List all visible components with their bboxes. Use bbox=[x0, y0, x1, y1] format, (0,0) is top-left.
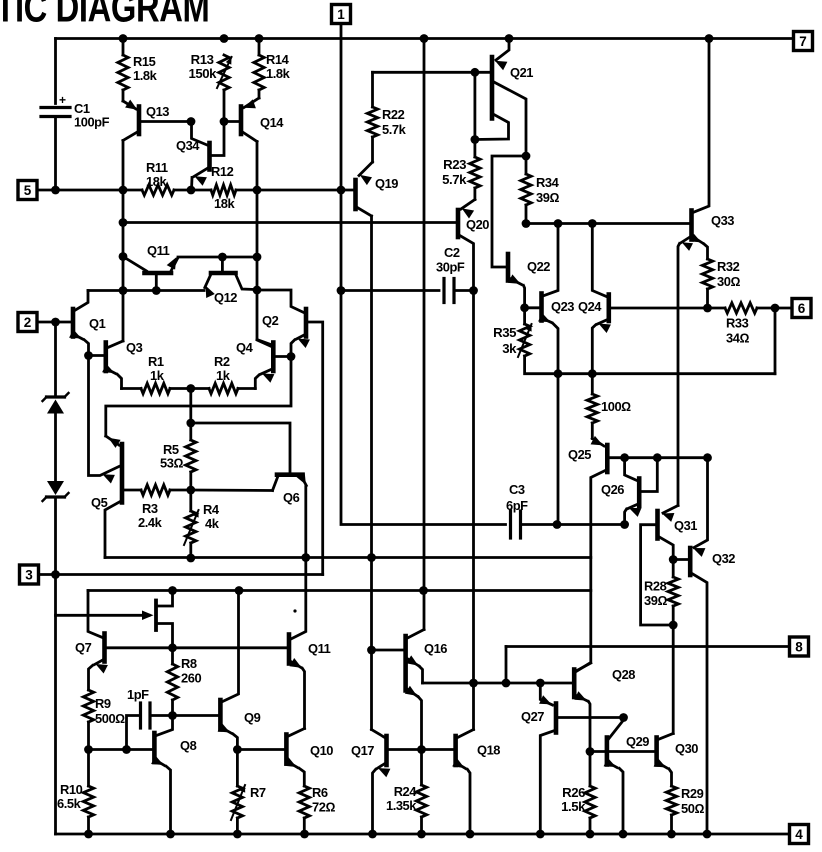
node Q8 base/R9R10 bbox=[84, 745, 93, 754]
svg-text:Q18: Q18 bbox=[477, 743, 500, 758]
resistor R24 bbox=[416, 750, 426, 835]
svg-text:Q1: Q1 bbox=[89, 316, 106, 331]
svg-text:R22: R22 bbox=[382, 107, 405, 122]
svg-text:Q22: Q22 bbox=[527, 259, 550, 274]
node Q9 emitter/R7/Q10 base bbox=[233, 745, 242, 754]
label Q10 bbox=[310, 743, 333, 758]
svg-text:R4: R4 bbox=[203, 502, 220, 517]
node Q26 emitter bbox=[620, 520, 629, 529]
svg-text:Q33: Q33 bbox=[711, 213, 734, 228]
svg-text:R12: R12 bbox=[211, 164, 234, 179]
svg-text:4k: 4k bbox=[205, 516, 220, 531]
node Q21 collector/R34 bbox=[522, 152, 531, 161]
resistor R9 bbox=[83, 690, 93, 750]
svg-text:R35: R35 bbox=[493, 325, 516, 340]
wire net-B R5 to Q6 collector bbox=[191, 423, 290, 473]
label R2 bbox=[214, 354, 231, 383]
transistor Q12 bbox=[205, 257, 255, 298]
svg-text:100pF: 100pF bbox=[74, 115, 110, 130]
svg-text:8: 8 bbox=[795, 639, 803, 654]
node Q20 collector / C2 bbox=[469, 286, 478, 295]
svg-text:Q19: Q19 bbox=[375, 176, 398, 191]
svg-text:Q28: Q28 bbox=[612, 667, 635, 682]
resistor R33 bbox=[708, 303, 792, 313]
transistor Q8 bbox=[89, 733, 171, 834]
node emitter row 100ohm bbox=[588, 369, 597, 378]
node R3/R4/R5 bbox=[186, 486, 195, 495]
node Q21 base/R23 column bbox=[471, 68, 480, 77]
svg-text:72Ω: 72Ω bbox=[312, 800, 335, 815]
label Q34 bbox=[176, 138, 200, 153]
svg-text:Q3: Q3 bbox=[126, 340, 143, 355]
svg-text:Q12: Q12 bbox=[214, 290, 237, 305]
resistor R13 (adjustable) bbox=[217, 55, 232, 122]
svg-text:18k: 18k bbox=[146, 174, 167, 189]
node y557/Q19 column bbox=[367, 553, 376, 562]
node R4 bottom bbox=[186, 554, 195, 563]
wire Q7 collector bbox=[88, 591, 103, 638]
svg-text:Q20: Q20 bbox=[466, 217, 489, 232]
resistor R2 bbox=[191, 383, 256, 393]
resistor R4 (adjustable) bbox=[184, 490, 199, 558]
label Q6 bbox=[283, 490, 300, 505]
node Q25 base / Q32 emitter column bbox=[703, 453, 712, 462]
label R9 bbox=[95, 696, 125, 726]
svg-text:Q25: Q25 bbox=[568, 447, 591, 462]
transistor Q33 (dual emitter) bbox=[678, 39, 709, 506]
svg-text:1k: 1k bbox=[150, 368, 165, 383]
transistor Q1 bbox=[69, 291, 88, 356]
svg-text:4: 4 bbox=[795, 827, 803, 842]
svg-text:Q5: Q5 bbox=[91, 495, 108, 510]
node Q12 base bbox=[218, 253, 227, 262]
wire pin8 row bbox=[506, 645, 789, 648]
svg-text:1: 1 bbox=[337, 7, 345, 22]
svg-text:R1: R1 bbox=[148, 354, 164, 369]
svg-text:R34: R34 bbox=[536, 175, 560, 190]
label Q33 bbox=[711, 213, 734, 228]
label Q24 bbox=[578, 299, 602, 314]
label R14 bbox=[266, 52, 291, 81]
wire pin5 row R11 R12 bbox=[37, 189, 354, 192]
svg-text:30pF: 30pF bbox=[436, 260, 465, 275]
wire Q13 collector column bbox=[122, 141, 125, 191]
zener diode D2 bbox=[43, 481, 69, 501]
svg-text:Q24: Q24 bbox=[578, 299, 602, 314]
transistor Q26 bbox=[625, 458, 658, 525]
label R6 bbox=[312, 785, 335, 815]
label R35 bbox=[493, 325, 517, 356]
junction dots on V+ rail bbox=[119, 34, 714, 43]
svg-text:3k: 3k bbox=[502, 341, 517, 356]
svg-text:R7: R7 bbox=[250, 785, 266, 800]
label Q17 bbox=[351, 743, 374, 758]
node y647/R8 jfet source bbox=[168, 643, 177, 652]
label Q18 bbox=[477, 743, 500, 758]
capacitor C1 bbox=[41, 93, 70, 117]
node R1/R2 tap bbox=[186, 384, 195, 393]
node R33/pin6 feedback bbox=[771, 304, 780, 313]
wire pin2 to Q1 base bbox=[37, 321, 71, 324]
label R7 bbox=[250, 785, 266, 800]
svg-text:5: 5 bbox=[24, 183, 32, 198]
resistor R8 bbox=[167, 648, 177, 716]
terminal 6 bbox=[792, 299, 811, 318]
svg-text:53Ω: 53Ω bbox=[160, 456, 183, 471]
svg-text:Q10: Q10 bbox=[310, 743, 333, 758]
terminal 5 bbox=[18, 181, 37, 200]
wire Q28 base row bbox=[423, 682, 573, 685]
svg-text:R24: R24 bbox=[394, 784, 418, 799]
transistor Q6 bbox=[273, 472, 307, 639]
jfet Q15 bbox=[56, 590, 173, 648]
label Q11 upper bbox=[147, 243, 170, 258]
svg-text:100Ω: 100Ω bbox=[601, 399, 631, 414]
node R5 top bbox=[186, 419, 195, 428]
svg-text:Q27: Q27 bbox=[521, 709, 544, 724]
transistor Q21 (dual collector) bbox=[475, 39, 526, 157]
node pin2/zener column bbox=[51, 318, 60, 327]
label Q9 bbox=[244, 710, 261, 725]
node y590/Q9 collector bbox=[235, 586, 244, 595]
wire V- bottom rail bbox=[56, 833, 791, 836]
label R28 bbox=[644, 579, 667, 609]
transistor Q23 bbox=[538, 224, 558, 374]
label Q7 bbox=[75, 640, 92, 655]
label Q13 bbox=[146, 104, 169, 119]
transistor Q11 (upper) bbox=[123, 257, 257, 291]
resistor R5 bbox=[186, 423, 196, 490]
label R34 bbox=[536, 175, 560, 205]
node y683/Q27 emitter bbox=[536, 679, 545, 688]
wire V+ top rail bbox=[56, 37, 794, 40]
resistor R29 bbox=[666, 786, 676, 834]
wire C2 right bbox=[454, 289, 474, 292]
wire Q33 base row bbox=[526, 222, 690, 225]
svg-text:260: 260 bbox=[181, 671, 201, 686]
node R28 bottom bbox=[669, 621, 678, 630]
node Q25 base / Q26 collector bbox=[620, 453, 629, 462]
svg-text:50Ω: 50Ω bbox=[681, 801, 704, 816]
resistor 100ohm bbox=[587, 374, 597, 439]
transistor Q31 bbox=[641, 506, 678, 626]
svg-text:5.7k: 5.7k bbox=[442, 172, 467, 187]
svg-text:1.8k: 1.8k bbox=[133, 68, 158, 83]
label Q31 bbox=[674, 518, 697, 533]
wire zener column top bbox=[54, 322, 57, 397]
node Q2 emitter / Q4 base bbox=[287, 352, 296, 361]
wire R35 column to C3 row bbox=[557, 374, 560, 525]
svg-text:6pF: 6pF bbox=[506, 498, 528, 513]
svg-text:5.7k: 5.7k bbox=[382, 122, 407, 137]
svg-text:Q16: Q16 bbox=[424, 641, 447, 656]
label 100ohm bbox=[601, 399, 631, 414]
label R15 bbox=[133, 54, 158, 83]
svg-text:R23: R23 bbox=[443, 157, 466, 172]
transistor Q18 bbox=[424, 730, 474, 835]
label Q21 bbox=[510, 65, 533, 80]
junction dots bottom rail bbox=[84, 830, 711, 839]
label Q4 bbox=[236, 340, 254, 355]
resistor R12 bbox=[211, 185, 236, 195]
label R13 bbox=[188, 52, 217, 81]
label Q28 bbox=[612, 667, 635, 682]
svg-text:R10: R10 bbox=[60, 782, 83, 797]
node Q16 base / Q19 column bbox=[367, 646, 376, 655]
transistor Q3 bbox=[89, 343, 122, 389]
resistor R34 bbox=[521, 156, 531, 224]
resistor R1 bbox=[122, 383, 191, 393]
svg-text:Q29: Q29 bbox=[626, 734, 649, 749]
node Q6 emitter column / y557 bbox=[301, 553, 310, 562]
node y590/jfet drain bbox=[168, 586, 177, 595]
resistor R6 bbox=[299, 786, 309, 834]
svg-text:R15: R15 bbox=[133, 54, 156, 69]
label R26 bbox=[561, 785, 586, 814]
svg-text:Q34: Q34 bbox=[176, 138, 200, 153]
transistor Q25 bbox=[576, 436, 707, 672]
svg-text:3: 3 bbox=[25, 567, 33, 582]
svg-text:2.4k: 2.4k bbox=[138, 515, 163, 530]
wire Q29 collector from Q27 base node bbox=[609, 718, 624, 739]
resistor R28 bbox=[668, 560, 678, 626]
transistor Q17 bbox=[372, 730, 391, 835]
svg-text:18k: 18k bbox=[214, 196, 235, 211]
svg-text:Q14: Q14 bbox=[260, 115, 284, 130]
node y683/Q18 collector bbox=[469, 679, 478, 688]
node Q20 base wire left end bbox=[119, 218, 128, 227]
label R1 bbox=[148, 354, 165, 383]
wire Q16 collector column bbox=[423, 39, 426, 630]
junction dots Q13 base wire bbox=[187, 117, 229, 126]
label Q2 bbox=[262, 313, 279, 328]
terminal 1 bbox=[332, 5, 351, 24]
label Q30 bbox=[675, 741, 698, 756]
transistor Q14 bbox=[224, 98, 259, 142]
label Q5 bbox=[91, 495, 108, 510]
label Q12 bbox=[214, 290, 237, 305]
wire pin1 column to C3 bbox=[341, 24, 506, 525]
label Q14 bbox=[260, 115, 284, 130]
wire Q17 base row bbox=[389, 748, 421, 751]
zener diode D1 bbox=[43, 393, 69, 414]
transistor Q20 bbox=[458, 200, 475, 291]
node Q31 collector / Q32 base / R28 bbox=[669, 555, 678, 564]
label R24 bbox=[386, 784, 417, 813]
wire zener bottom bbox=[54, 497, 57, 575]
node Q1 emitter / Q3 base bbox=[84, 351, 93, 360]
svg-text:R8: R8 bbox=[181, 656, 197, 671]
svg-text:R28: R28 bbox=[644, 579, 667, 594]
node y683/pin8 bbox=[502, 679, 511, 688]
wire y557 row bbox=[105, 556, 591, 559]
label Q1 bbox=[89, 316, 106, 331]
label R4 bbox=[203, 502, 220, 531]
node pin3/zener column bbox=[51, 570, 60, 579]
svg-text:2: 2 bbox=[24, 315, 32, 330]
svg-text:R13: R13 bbox=[191, 52, 214, 67]
svg-text:6: 6 bbox=[798, 301, 806, 316]
transistor Q10 bbox=[239, 729, 304, 787]
node x257/y290 bbox=[253, 286, 262, 295]
svg-text:R29: R29 bbox=[681, 786, 704, 801]
resistor R32 bbox=[702, 259, 712, 308]
wire C3 right bbox=[521, 523, 625, 526]
wire Q14 collector column bbox=[257, 142, 272, 347]
wire zener mid bbox=[54, 414, 57, 482]
junction dots Q33 base row bbox=[522, 219, 597, 228]
wire net-A Q2em to Q5 bbox=[106, 357, 291, 437]
transistor Q19 bbox=[356, 162, 373, 216]
node Q21 collector2 tie bbox=[471, 135, 480, 144]
svg-text:1.35k: 1.35k bbox=[386, 798, 417, 813]
svg-text:Q30: Q30 bbox=[675, 741, 698, 756]
svg-text:1.8k: 1.8k bbox=[266, 66, 291, 81]
wire R1R2 tap down bbox=[189, 389, 192, 424]
svg-text:30Ω: 30Ω bbox=[717, 274, 740, 289]
resistor R23 bbox=[470, 157, 480, 200]
transistor Q2 bbox=[291, 309, 323, 575]
wire C1 top bbox=[54, 39, 57, 104]
label Q19 bbox=[375, 176, 398, 191]
transistor Q34 bbox=[192, 122, 225, 191]
label 1pF bbox=[127, 687, 149, 702]
junction dots pin5 row bbox=[51, 186, 261, 195]
node Q17 base/R24/Q16em2 bbox=[417, 745, 426, 754]
svg-text:Q4: Q4 bbox=[236, 340, 254, 355]
node x123/y256 bbox=[119, 252, 128, 261]
svg-text:Q17: Q17 bbox=[351, 743, 374, 758]
capacitor C2 bbox=[444, 279, 454, 303]
wire Q6 base row bbox=[191, 489, 273, 492]
label Q27 bbox=[521, 709, 544, 724]
svg-text:Q26: Q26 bbox=[601, 482, 624, 497]
transistor Q28 bbox=[574, 663, 591, 752]
svg-text:34Ω: 34Ω bbox=[726, 331, 749, 346]
terminal 2 bbox=[18, 313, 37, 332]
resistor R14 bbox=[254, 39, 264, 99]
terminal 3 bbox=[20, 565, 39, 584]
label R8 bbox=[181, 656, 201, 686]
node C3/R35-Q23 column bbox=[553, 520, 562, 529]
node Q28 emitter / Q29 base / R26 bbox=[586, 747, 595, 756]
label R10 bbox=[57, 782, 83, 811]
terminal 4 bbox=[790, 825, 809, 844]
svg-text:R14: R14 bbox=[266, 52, 290, 67]
svg-text:R26: R26 bbox=[562, 785, 585, 800]
resistor R22 bbox=[367, 72, 377, 162]
node y590/Q16 collector column bbox=[419, 586, 428, 595]
node Q8 base/1pF bbox=[122, 745, 131, 754]
node pin1/R12 wire bbox=[337, 186, 346, 195]
speck bbox=[293, 609, 296, 612]
label Q20 bbox=[466, 217, 489, 232]
wire Q11 collector row bbox=[88, 289, 204, 292]
svg-text:500Ω: 500Ω bbox=[95, 711, 125, 726]
svg-text:6.5k: 6.5k bbox=[57, 796, 82, 811]
svg-text:R3: R3 bbox=[142, 501, 158, 516]
label R33 bbox=[726, 316, 749, 346]
wire pin3 column down to rail bbox=[54, 575, 57, 835]
resistor R35 (adjustable) bbox=[518, 308, 556, 374]
svg-text:39Ω: 39Ω bbox=[536, 190, 559, 205]
node pin1/C2 wire bbox=[337, 286, 346, 295]
svg-text:1k: 1k bbox=[216, 368, 231, 383]
wire R23 column bbox=[473, 72, 476, 157]
svg-text:Q7: Q7 bbox=[75, 640, 92, 655]
transistor Q4 bbox=[255, 340, 291, 389]
svg-text:Q9: Q9 bbox=[244, 710, 261, 725]
label Q29 bbox=[626, 734, 649, 749]
svg-text:R33: R33 bbox=[726, 316, 749, 331]
transistor Q32 bbox=[675, 458, 707, 834]
svg-text:7: 7 bbox=[799, 34, 807, 49]
wire x123 column bbox=[122, 190, 125, 341]
label R23 bbox=[442, 157, 467, 187]
label Q32 bbox=[712, 551, 735, 566]
title text (clipped) bbox=[0, 0, 209, 30]
svg-text:Q21: Q21 bbox=[510, 65, 533, 80]
wire pin6 down to emitter row bbox=[774, 308, 777, 374]
label Q25 bbox=[568, 447, 591, 462]
wire Q23 base bbox=[525, 306, 540, 309]
svg-text:C2: C2 bbox=[444, 245, 460, 260]
wire Q20 base row bbox=[123, 221, 456, 224]
label R5 bbox=[160, 442, 183, 471]
terminal 7 bbox=[794, 32, 813, 51]
label R12 bbox=[211, 164, 235, 211]
wire R8 column to Q8 bbox=[156, 716, 172, 736]
transistor Q16 (dual emitter) bbox=[372, 630, 425, 750]
node R32/R33 junction bbox=[703, 304, 712, 313]
label R11 bbox=[146, 160, 168, 189]
wire y590 row bbox=[88, 589, 591, 592]
wire Q2 collector path bbox=[257, 290, 304, 313]
label R22 bbox=[382, 107, 407, 137]
svg-text:R2: R2 bbox=[214, 354, 230, 369]
transistor Q30 bbox=[654, 734, 674, 787]
label Q23 bbox=[551, 299, 574, 314]
svg-text:R9: R9 bbox=[95, 696, 111, 711]
transistor Q5 (dual emitter) bbox=[89, 356, 123, 558]
label C2 bbox=[436, 245, 465, 275]
wire pin8 drop bbox=[505, 647, 508, 684]
label Q22 bbox=[527, 259, 550, 274]
wire y647 row bbox=[107, 646, 288, 649]
svg-text:1pF: 1pF bbox=[127, 687, 149, 702]
terminal 8 bbox=[790, 637, 809, 656]
svg-text:R6: R6 bbox=[312, 785, 328, 800]
label R3 bbox=[138, 501, 163, 530]
svg-text:Q2: Q2 bbox=[262, 313, 279, 328]
capacitor 1pF bbox=[127, 703, 173, 750]
wire C1 bottom bbox=[54, 117, 57, 191]
svg-text:Q32: Q32 bbox=[712, 551, 735, 566]
node Q22 emitter / Q23 base / R35 bbox=[520, 303, 529, 312]
svg-text:R32: R32 bbox=[717, 259, 740, 274]
wire R28/Q30 collector column bbox=[672, 625, 675, 734]
svg-text:Q8: Q8 bbox=[180, 738, 197, 753]
svg-text:Q23: Q23 bbox=[551, 299, 574, 314]
wire Q3 collector from x123 bbox=[108, 341, 123, 348]
resistor R10 bbox=[83, 750, 93, 835]
resistor R7 (adjustable) bbox=[231, 750, 245, 835]
transistor Q27 bbox=[539, 683, 623, 834]
node Q27 base / Q29 collector column bbox=[619, 713, 628, 722]
node emitter row left bbox=[554, 369, 563, 378]
resistor R26 bbox=[585, 752, 595, 835]
wire Q19 collector long column bbox=[370, 216, 373, 730]
